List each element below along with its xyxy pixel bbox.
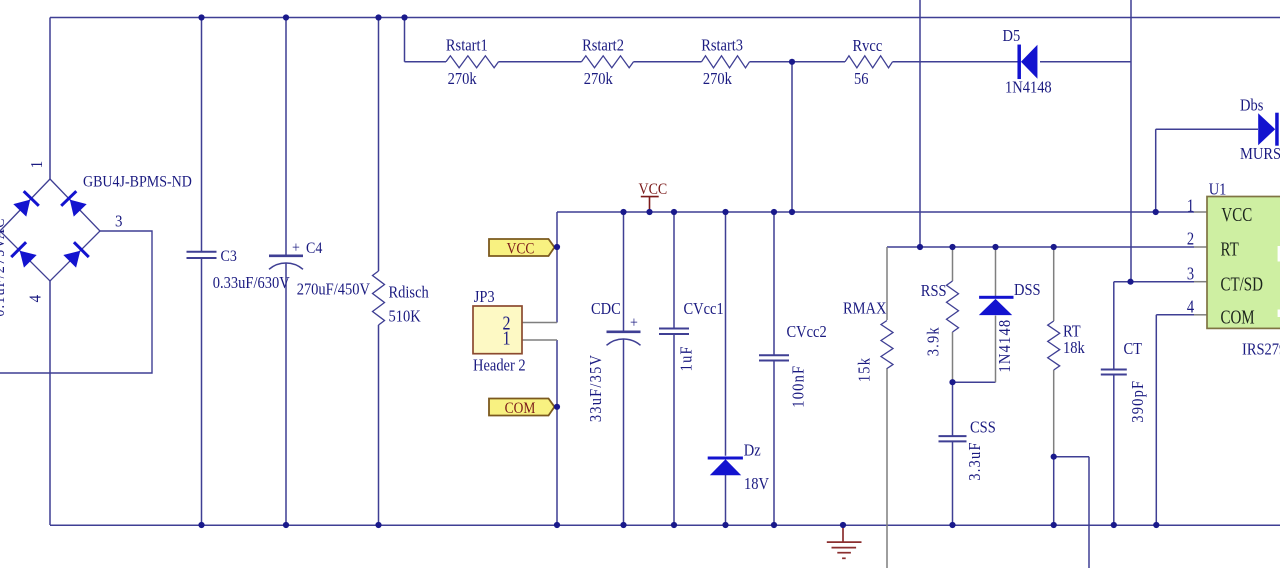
lead RT top bbox=[1053, 247, 1055, 321]
svg-text:RSS: RSS bbox=[921, 282, 947, 300]
wire VCC column lower x557 bbox=[556, 340, 558, 525]
svg-text:270k: 270k bbox=[448, 70, 477, 88]
svg-text:+: + bbox=[292, 240, 300, 257]
lead DSS anode bbox=[995, 316, 997, 383]
wire CT column lower bbox=[1113, 375, 1115, 526]
svg-text:18V: 18V bbox=[744, 475, 770, 493]
svg-text:100nF: 100nF bbox=[790, 365, 808, 408]
wire C3 column lower bbox=[201, 258, 203, 525]
svg-text:COM: COM bbox=[505, 400, 536, 417]
svg-text:Rstart2: Rstart2 bbox=[582, 37, 624, 55]
junction dot VCC flag bbox=[554, 244, 560, 250]
IC U1 IRS2795 body bbox=[1207, 197, 1280, 329]
resistor RMAX bbox=[881, 321, 893, 369]
connector JP3 Header 2 bbox=[473, 306, 522, 354]
wire Rstart chain segment d bbox=[750, 61, 846, 63]
bridge diode top-left bbox=[12, 190, 40, 218]
svg-text:15k: 15k bbox=[856, 357, 874, 382]
resistor RSS bbox=[947, 281, 959, 332]
svg-text:CVcc1: CVcc1 bbox=[684, 300, 724, 318]
lead U1 pin 1 bbox=[1194, 211, 1207, 213]
wire Rdisch column upper bbox=[378, 18, 380, 272]
wire branch down off bottom edge bbox=[1088, 457, 1090, 568]
wire node Rstart3-Rvcc down to VCC rail bbox=[791, 62, 793, 212]
lead JP3 pin 1 bbox=[522, 339, 557, 341]
wire C3 column upper bbox=[201, 18, 203, 252]
wire D5 to x1131 column bbox=[1040, 61, 1131, 63]
svg-text:VCC: VCC bbox=[507, 240, 535, 257]
resistor Rvcc bbox=[845, 56, 893, 68]
svg-text:RT: RT bbox=[1063, 323, 1081, 341]
svg-text:D5: D5 bbox=[1003, 27, 1021, 45]
wire drop to Rstart chain bbox=[404, 18, 406, 62]
svg-text:270k: 270k bbox=[703, 70, 732, 88]
svg-text:+: + bbox=[630, 315, 638, 332]
diode Dbs MURS bbox=[1258, 113, 1279, 146]
svg-text:3.3uF: 3.3uF bbox=[966, 441, 984, 480]
bridge rectifier B1 GBU4J diamond bbox=[0, 179, 100, 281]
wire COM pin4 row bbox=[1156, 314, 1194, 316]
lead U1 pin 3 bbox=[1194, 281, 1207, 283]
svg-text:C3: C3 bbox=[221, 248, 237, 265]
wire Rdisch column lower bbox=[378, 325, 380, 525]
lead U1 pin 4 bbox=[1194, 314, 1207, 316]
wire Dz column lower bbox=[725, 475, 727, 525]
lead RMAX bottom off edge bbox=[886, 368, 888, 568]
svg-text:3: 3 bbox=[115, 213, 122, 231]
bridge diode bottom-left bbox=[10, 241, 38, 269]
capacitor CVcc1 bbox=[659, 328, 689, 330]
capacitor CVcc2 bbox=[759, 354, 789, 356]
svg-text:2: 2 bbox=[1187, 228, 1194, 249]
wire C4 column upper bbox=[285, 18, 287, 256]
wire RT column to bottom rail bbox=[1053, 457, 1055, 525]
lead RMAX top bbox=[886, 247, 888, 320]
svg-text:MURS16: MURS16 bbox=[1240, 145, 1280, 163]
wire CT column upper bbox=[1113, 282, 1115, 370]
diode DSS 1N4148 bbox=[979, 296, 1013, 299]
wire bridge pin4 to bottom rail bbox=[49, 281, 51, 525]
power flag VCC bbox=[489, 239, 555, 256]
svg-text:RMAX: RMAX bbox=[843, 300, 886, 318]
junction dot DSS-CSS node bbox=[949, 379, 955, 385]
svg-text:Rstart3: Rstart3 bbox=[701, 37, 743, 55]
svg-text:33uF/35V: 33uF/35V bbox=[587, 354, 605, 422]
junction dots bottom rail bbox=[198, 522, 204, 528]
wire Rstart chain segment c bbox=[634, 61, 702, 63]
svg-text:RT: RT bbox=[1221, 239, 1240, 260]
wire COM column to bottom rail bbox=[1155, 315, 1157, 525]
wire CSS column upper bbox=[952, 382, 954, 436]
svg-text:U1: U1 bbox=[1209, 180, 1227, 198]
svg-text:4: 4 bbox=[1187, 296, 1194, 317]
wire CDC column lower bbox=[623, 339, 625, 525]
svg-text:3.9k: 3.9k bbox=[925, 326, 943, 356]
wire Rstart chain segment b bbox=[499, 61, 582, 63]
svg-text:CSS: CSS bbox=[970, 419, 996, 437]
capacitor CSS bbox=[939, 435, 967, 437]
wire CDC column upper bbox=[623, 212, 625, 332]
wire CVcc2 column upper bbox=[773, 212, 775, 355]
wire column x1131 from top edge to CT/SD net bbox=[1130, 0, 1132, 282]
svg-text:1: 1 bbox=[28, 160, 46, 169]
wire pin1 node up to Dbs row bbox=[1155, 129, 1157, 212]
wire top rail bbox=[50, 17, 1280, 19]
svg-text:CVcc2: CVcc2 bbox=[787, 323, 827, 341]
svg-text:4: 4 bbox=[27, 294, 45, 303]
svg-text:1: 1 bbox=[502, 327, 510, 349]
lead U1 pin 2 bbox=[1194, 246, 1207, 248]
svg-text:COM: COM bbox=[1221, 307, 1255, 328]
junction dots RT net bbox=[917, 244, 923, 250]
junction dot COM flag bbox=[554, 404, 560, 410]
junction dot RT branch bbox=[1051, 454, 1057, 460]
svg-text:0.1uF/275VAC: 0.1uF/275VAC bbox=[0, 217, 8, 316]
wire column x920 from top edge to RT net bbox=[919, 0, 921, 247]
svg-text:0.33uF/630V: 0.33uF/630V bbox=[213, 274, 291, 292]
svg-text:510K: 510K bbox=[389, 308, 422, 326]
svg-text:Rstart1: Rstart1 bbox=[446, 37, 488, 55]
capacitor CDC polarized bbox=[607, 330, 641, 333]
wire bottom rail bbox=[50, 524, 1280, 526]
resistor Rstart3 bbox=[702, 56, 750, 68]
diode D5 1N4148 bbox=[1017, 45, 1037, 80]
wire branch from RT column right bbox=[1054, 456, 1089, 458]
svg-text:VCC: VCC bbox=[1221, 204, 1252, 225]
wire Dbs row bbox=[1156, 128, 1258, 130]
svg-text:CT/SD: CT/SD bbox=[1221, 274, 1263, 295]
svg-text:CT: CT bbox=[1124, 340, 1143, 358]
wire bridge pin3 loop bbox=[0, 231, 152, 373]
wire DSS anode to CSS node bbox=[953, 381, 996, 383]
wire CVcc1 column upper bbox=[673, 212, 675, 329]
junction dot Rstart3-Rvcc node bbox=[789, 59, 795, 65]
lead RSS top bbox=[952, 247, 954, 281]
wire C4 column lower bbox=[285, 263, 287, 526]
resistor Rstart2 bbox=[582, 56, 634, 68]
svg-text:IRS2795: IRS2795 bbox=[1242, 341, 1280, 359]
wire Rstart chain segment a bbox=[405, 61, 447, 63]
zener diode Dz 18V bbox=[708, 457, 743, 460]
lead JP3 pin 2 bbox=[522, 322, 557, 324]
svg-text:18k: 18k bbox=[1063, 339, 1085, 357]
svg-text:Rvcc: Rvcc bbox=[853, 37, 883, 55]
junction dot CT/SD net bbox=[1127, 279, 1133, 285]
svg-text:CDC: CDC bbox=[591, 300, 621, 318]
power flag COM bbox=[489, 399, 555, 416]
svg-text:1uF: 1uF bbox=[678, 345, 696, 371]
svg-text:Dz: Dz bbox=[744, 441, 761, 459]
svg-text:3: 3 bbox=[1187, 263, 1194, 284]
wire CT/SD net pin3 row bbox=[1114, 281, 1194, 283]
lead RT bottom bbox=[1053, 370, 1055, 457]
wire Rvcc to D5 bbox=[893, 61, 1020, 63]
svg-text:1N4148: 1N4148 bbox=[996, 319, 1014, 373]
wire Dz column upper bbox=[725, 212, 727, 456]
wire CVcc1 column lower bbox=[673, 334, 675, 525]
wire VCC column upper x557 bbox=[556, 212, 558, 323]
svg-text:C4: C4 bbox=[306, 240, 323, 257]
lead DSS cathode bbox=[995, 247, 997, 296]
capacitor C4 polarized bbox=[269, 255, 303, 258]
svg-text:JP3: JP3 bbox=[474, 288, 495, 306]
bridge diode top-right bbox=[60, 190, 88, 218]
ground symbol bbox=[827, 525, 862, 558]
junction dots top rail bbox=[198, 14, 204, 20]
resistor Rdisch bbox=[373, 271, 385, 325]
resistor RT bbox=[1048, 321, 1060, 370]
capacitor C3 bbox=[187, 251, 217, 253]
svg-text:1: 1 bbox=[1187, 195, 1194, 216]
svg-text:DSS: DSS bbox=[1014, 281, 1041, 299]
bridge diode bottom-right bbox=[62, 241, 90, 269]
svg-text:VCC: VCC bbox=[639, 181, 668, 198]
svg-text:270uF/450V: 270uF/450V bbox=[297, 281, 371, 299]
power symbol VCC bbox=[641, 196, 659, 198]
wire CSS column lower bbox=[952, 441, 954, 525]
junction dots VCC rail bbox=[620, 209, 626, 215]
svg-text:Header 2: Header 2 bbox=[473, 357, 526, 375]
lead RSS bottom bbox=[952, 332, 954, 382]
svg-text:270k: 270k bbox=[584, 70, 613, 88]
capacitor CT bbox=[1101, 369, 1127, 371]
wire CVcc2 column lower bbox=[773, 361, 775, 526]
svg-text:390pF: 390pF bbox=[1129, 380, 1147, 423]
svg-text:Rdisch: Rdisch bbox=[389, 284, 429, 302]
wire RT net pin2 row bbox=[887, 246, 1194, 248]
wire VCC rail bbox=[557, 211, 1194, 213]
svg-text:Dbs: Dbs bbox=[1240, 97, 1263, 115]
svg-text:1N4148: 1N4148 bbox=[1005, 79, 1052, 97]
resistor Rstart1 bbox=[446, 56, 499, 68]
svg-text:GBU4J-BPMS-ND: GBU4J-BPMS-ND bbox=[83, 174, 192, 191]
wire bridge top to rail bbox=[49, 18, 51, 180]
svg-text:56: 56 bbox=[854, 70, 869, 88]
